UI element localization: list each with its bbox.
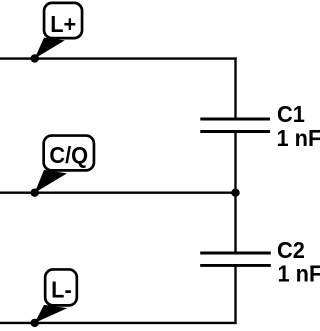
svg-text:1 nF: 1 nF [277, 126, 320, 152]
wire: right vertical from L+ corner down to C1 [234, 57, 236, 119]
capacitor C1 [200, 119, 270, 132]
junction dot at C/Q branch [231, 189, 239, 197]
svg-text:C2: C2 [277, 237, 305, 263]
wire: vertical from C2 down to L- net [234, 265, 236, 324]
svg-text:C/Q: C/Q [49, 142, 88, 168]
wire: vertical from junction to C2 [234, 193, 236, 253]
junction dot for L+ callout [31, 54, 39, 62]
wire: L- horizontal net [0, 322, 237, 324]
junction dot for C/Q callout [31, 189, 39, 197]
wire: vertical from C1 to C/Q junction [234, 132, 236, 193]
svg-text:1 nF: 1 nF [278, 261, 320, 287]
svg-text:C1: C1 [277, 101, 305, 127]
junction dot for L- callout [31, 319, 39, 327]
svg-text:L+: L+ [50, 11, 76, 37]
capacitor C2 [200, 253, 271, 265]
node label L+ callout [35, 3, 82, 59]
svg-text:L-: L- [51, 277, 72, 303]
wire: L+ horizontal net [0, 57, 237, 59]
wire: C/Q horizontal net [0, 192, 237, 194]
node label C/Q callout [35, 136, 94, 193]
node label L- callout [35, 269, 77, 322]
